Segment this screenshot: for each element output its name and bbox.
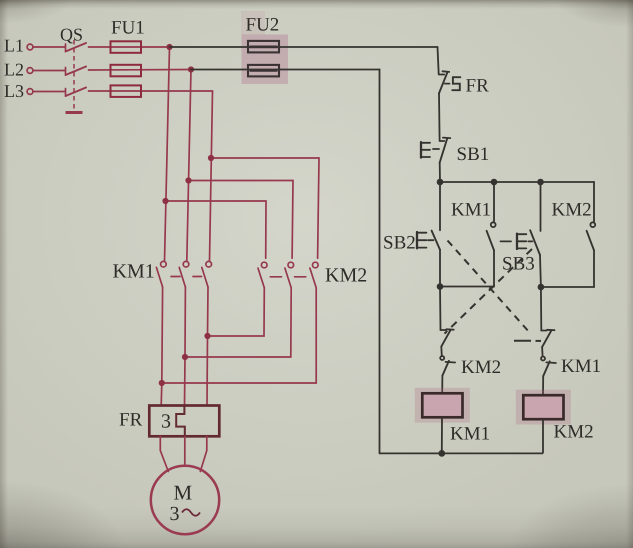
svg-text:3: 3 <box>161 411 171 433</box>
node bus-B <box>491 179 498 186</box>
motor M circle <box>151 466 219 534</box>
wire L1 QS to junction <box>89 46 170 48</box>
svg-text:QS: QS <box>60 25 83 45</box>
svg-text:L2: L2 <box>4 60 24 80</box>
svg-text:KM2: KM2 <box>554 422 594 443</box>
KM1 pole3 contact <box>206 261 212 267</box>
wire KM2 coil to bus <box>542 419 544 453</box>
wire KM2 pole3 to U <box>162 288 316 383</box>
fuse FU1 pole2 <box>111 65 142 77</box>
wire SB1 to bus <box>439 163 441 183</box>
node W-tap <box>208 155 214 161</box>
wire SB2 down <box>439 250 442 330</box>
switch QS linkage dashed <box>73 40 75 110</box>
FR heater element symbol <box>176 406 185 437</box>
svg-text:3: 3 <box>170 503 180 525</box>
wire KM2 pole2 to V <box>185 288 291 357</box>
node bus-A <box>437 179 444 186</box>
wire phase U vertical <box>165 47 170 261</box>
node A-B join <box>437 283 444 290</box>
contactor KM1 NC interlock contact <box>541 347 544 356</box>
node W-cross <box>204 333 210 339</box>
wire spine down from L1 <box>438 47 439 74</box>
wire branch V to KM2 <box>189 181 294 259</box>
KM2 pole2 contact <box>288 262 294 268</box>
fuse FU2 pole1 <box>248 41 279 53</box>
wire phase W vertical <box>210 91 213 261</box>
thermal relay FR heater box <box>149 406 219 437</box>
wire bottom bus <box>380 452 544 454</box>
black junction dots <box>437 179 545 457</box>
node U-tap <box>162 198 168 204</box>
wire to KM2 coil <box>542 376 544 395</box>
svg-text:KM1: KM1 <box>450 424 490 445</box>
svg-text:KM2: KM2 <box>325 265 367 287</box>
node L2-junction <box>188 66 194 72</box>
fuse FU2 pole2 <box>248 65 279 77</box>
KM2 pole1 contact <box>261 262 267 268</box>
node bus-C <box>537 179 544 186</box>
wire L3 to QS <box>33 91 65 93</box>
svg-text:FR: FR <box>466 76 490 97</box>
KM1 pole2 contact <box>183 261 189 267</box>
wire KM2 pole1 to W <box>208 288 265 336</box>
svg-text:FR: FR <box>119 410 143 431</box>
switch QS pole 2 blade <box>65 68 67 74</box>
fuse FU1 boxes <box>111 41 142 97</box>
coil KM2 highlight <box>516 390 571 425</box>
fuse FU1 pole3 <box>111 85 142 97</box>
fuse FU2 highlight <box>241 11 265 35</box>
fuse FU1 pole1 <box>111 41 142 53</box>
wire motor lead left <box>160 436 168 471</box>
wire L3 QS to corner <box>89 90 213 92</box>
svg-text:KM1: KM1 <box>561 356 601 377</box>
button SB1 NC contact <box>440 140 445 142</box>
svg-text:SB1: SB1 <box>457 144 490 165</box>
svg-text:SB3: SB3 <box>502 254 535 275</box>
switch QS pole 1 blade <box>65 44 67 50</box>
switch QS handle bar <box>66 111 83 114</box>
node L1 terminal <box>27 44 33 50</box>
wire phase V vertical <box>187 70 191 262</box>
interlock dashed link SB3 to left branch <box>445 249 533 334</box>
svg-text:L1: L1 <box>4 36 24 56</box>
wire V down to FR <box>184 287 187 406</box>
svg-text:M: M <box>174 481 193 505</box>
contactor KM1 aux NO contact <box>440 182 496 287</box>
node L1-junction <box>166 44 172 50</box>
wire to KM1 coil <box>441 376 443 394</box>
wire U down to FR <box>161 287 162 406</box>
wire L2 QS to junction <box>89 69 192 72</box>
KM1 pole1 contact <box>161 261 167 267</box>
svg-text:SB2: SB2 <box>383 233 416 254</box>
wire left rail <box>379 70 381 454</box>
wire L1 to QS <box>33 46 65 48</box>
switch QS pole 3 blade <box>65 89 67 95</box>
contactor KM2 NC interlock contact <box>440 347 443 356</box>
wire branch U to KM2 <box>166 201 267 258</box>
wire L2 feed to left rail <box>191 69 380 71</box>
wire top bus <box>440 181 594 183</box>
coil KM2 <box>523 395 563 419</box>
interlock dashed link SB2 to right branch <box>445 241 542 341</box>
contactor KM2 aux NO contact <box>541 182 595 287</box>
red junction dots <box>159 44 214 386</box>
contactor KM2 main contacts <box>258 262 318 288</box>
svg-text:KM2: KM2 <box>461 357 501 378</box>
coil KM1 highlight <box>415 388 470 423</box>
wire branch W to KM2 <box>211 158 319 258</box>
KM2 pole3 contact <box>313 262 319 268</box>
button NC contact (left stack) <box>440 329 455 393</box>
fuse FU2 boxes <box>248 41 279 77</box>
wire L1 feed to control <box>170 46 438 48</box>
motor tilde <box>182 509 200 516</box>
svg-text:KM1: KM1 <box>113 261 155 283</box>
svg-text:L3: L3 <box>4 81 24 101</box>
button SB3 NO contact <box>501 182 542 331</box>
svg-text:KM1: KM1 <box>451 200 491 221</box>
KM1 linkage dashes <box>171 276 180 278</box>
wire L2 to QS <box>33 70 65 72</box>
fuse FU2 wire segments <box>250 46 278 49</box>
wire KM1 coil to bus <box>441 417 443 453</box>
KM2 linkage dashes <box>270 276 281 278</box>
coil KM1 <box>422 393 462 417</box>
node L2 terminal <box>27 68 33 74</box>
node bottom-bus <box>438 450 445 457</box>
svg-text:FU1: FU1 <box>111 18 145 39</box>
node U-cross <box>159 380 165 386</box>
wires FR box to motor <box>160 436 207 471</box>
wire SB3 down <box>540 255 541 331</box>
node C-D join <box>538 284 545 291</box>
wire motor lead right <box>200 436 207 471</box>
relay FR NC contact <box>439 74 445 76</box>
button NC contact (right stack) <box>541 330 556 395</box>
node V-cross <box>182 354 188 360</box>
wire FR to SB1 <box>438 94 441 141</box>
node V-tap <box>185 177 191 183</box>
svg-text:FU2: FU2 <box>246 15 280 36</box>
svg-text:KM2: KM2 <box>552 200 592 221</box>
button SB2 NO contact <box>417 182 441 330</box>
wire W down to FR <box>207 287 208 406</box>
node L3 terminal <box>27 89 33 95</box>
wire motor lead mid <box>184 436 186 466</box>
contactor KM1 main contacts <box>156 261 211 287</box>
